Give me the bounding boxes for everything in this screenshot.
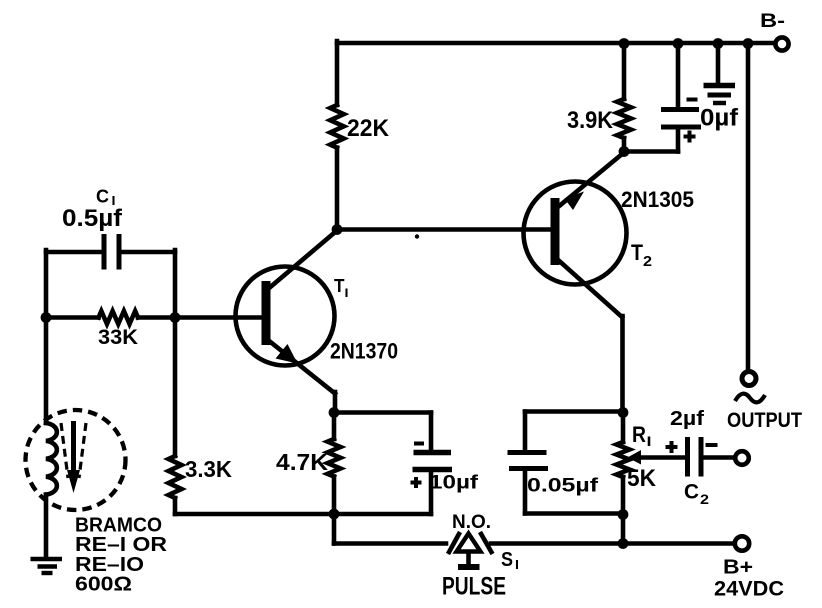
svg-text:T: T [631,240,643,265]
svg-text:C: C [96,187,109,207]
svg-text:22K: 22K [347,115,390,142]
svg-text:PULSE: PULSE [442,573,506,601]
svg-text:4.7K: 4.7K [276,449,328,475]
svg-text:600Ω: 600Ω [75,574,132,596]
svg-text:2: 2 [700,491,709,507]
svg-text:3.9K: 3.9K [567,107,614,134]
svg-text:R: R [632,422,646,447]
svg-text:0.05µf: 0.05µf [527,475,599,497]
svg-text:T: T [334,276,345,296]
svg-text:2: 2 [643,253,652,270]
svg-text:I: I [345,286,349,300]
svg-text:0.5µf: 0.5µf [62,205,123,232]
svg-text:B+: B+ [723,557,753,579]
svg-text:B-: B- [760,10,785,32]
svg-text:10µf: 10µf [429,472,479,494]
svg-text:I: I [647,433,652,449]
svg-text:S: S [501,549,513,571]
svg-text:24VDC: 24VDC [714,578,784,601]
svg-text:33K: 33K [98,326,138,349]
svg-text:2µf: 2µf [670,407,704,430]
svg-text:OUTPUT: OUTPUT [727,409,802,432]
svg-text:0µf: 0µf [700,105,739,132]
svg-text:N.O.: N.O. [452,512,491,533]
svg-text:I: I [515,557,519,572]
svg-text:3.3K: 3.3K [185,456,232,482]
svg-text:5K: 5K [627,465,657,492]
svg-text:2N1370: 2N1370 [330,339,398,364]
svg-text:C: C [684,481,699,504]
svg-text:2N1305: 2N1305 [621,187,694,212]
svg-text:RE–I OR: RE–I OR [75,534,168,556]
